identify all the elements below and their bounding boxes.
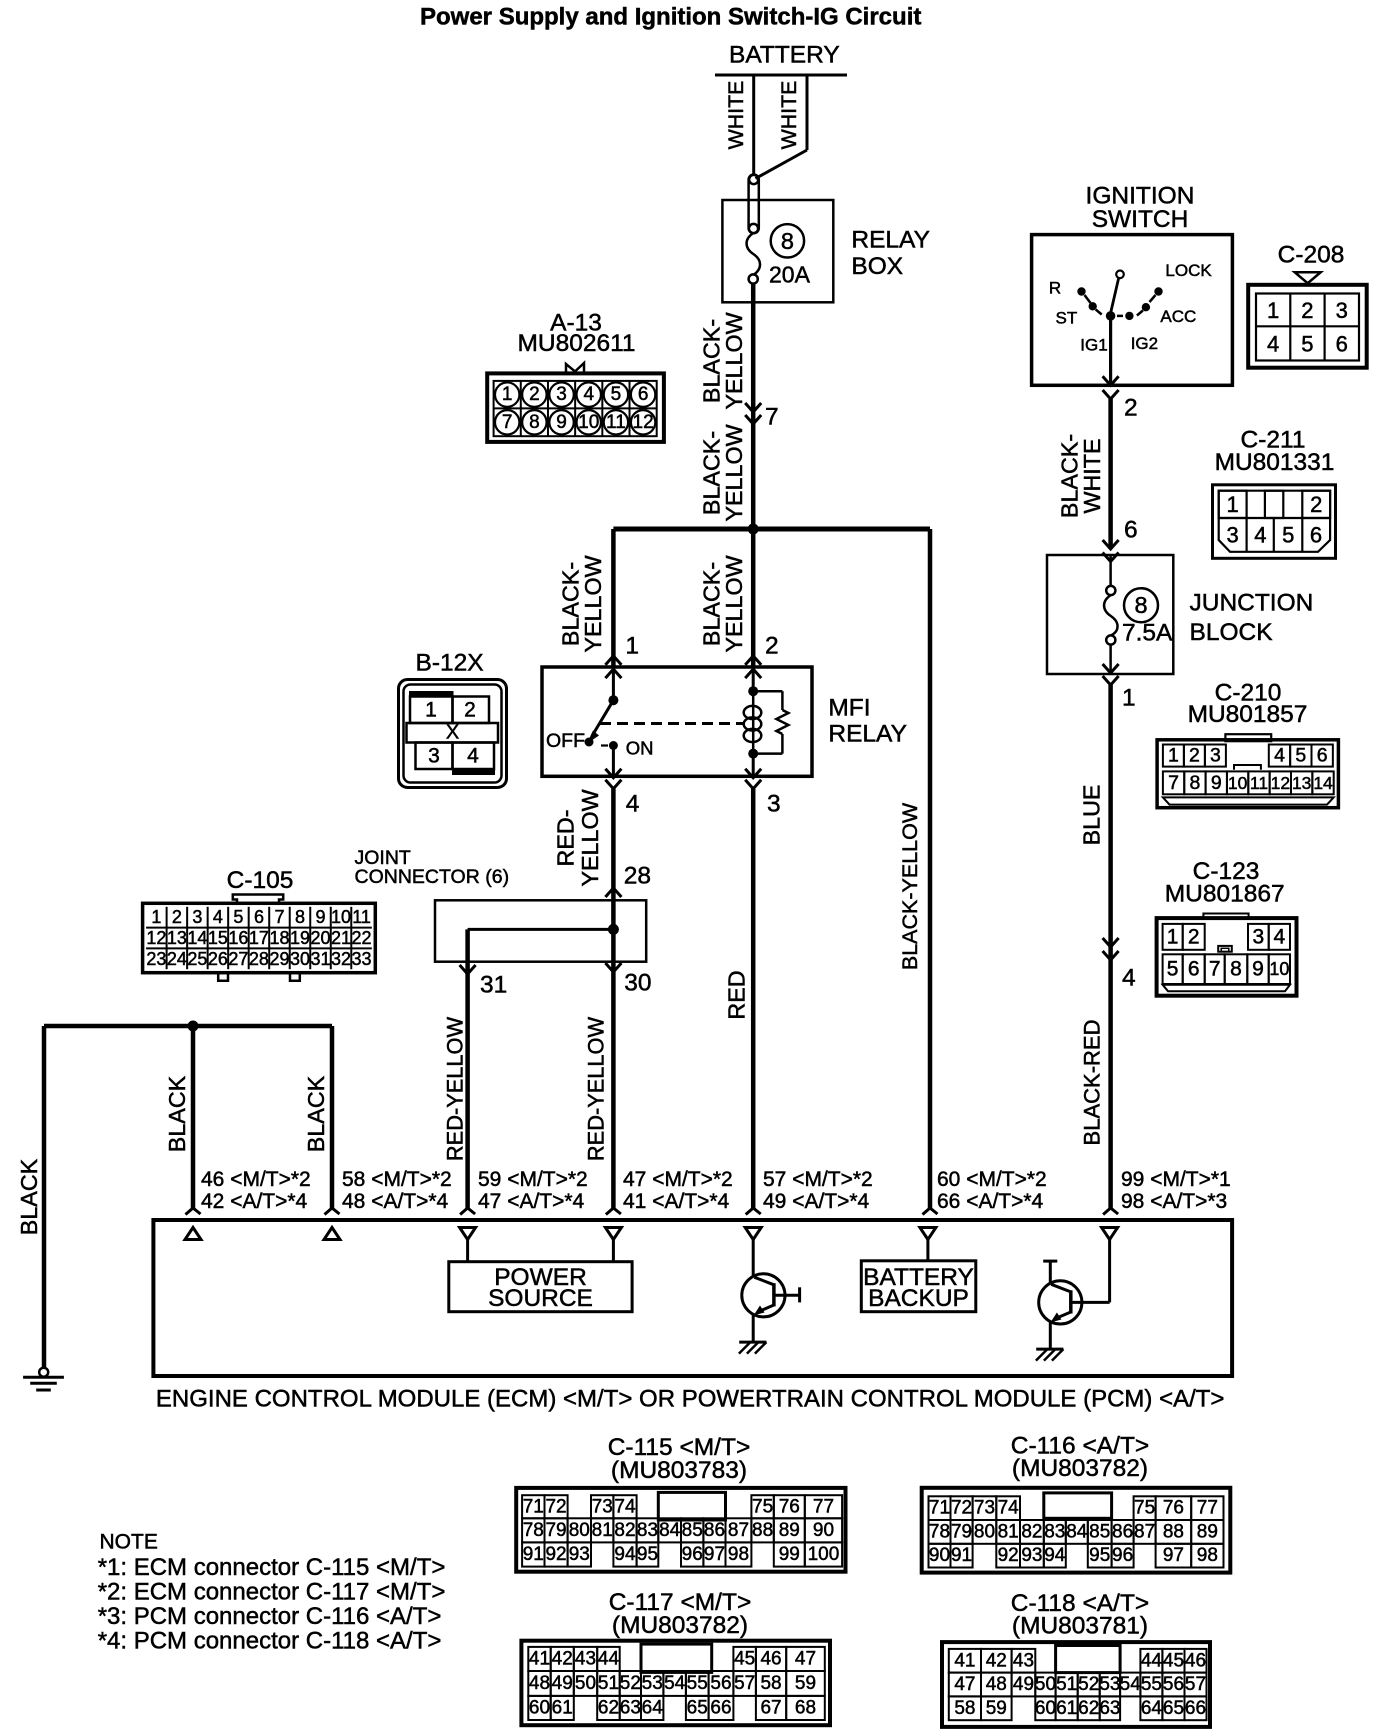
chassis ground Q2	[1036, 1348, 1063, 1351]
C-105 bottom tabs	[218, 973, 228, 981]
svg-text:1: 1	[1122, 685, 1136, 712]
svg-text:31: 31	[480, 972, 507, 999]
svg-text:59 <M/T>*2: 59 <M/T>*2	[478, 1168, 588, 1191]
MFI dashed link	[600, 722, 744, 725]
svg-text:BLACK: BLACK	[303, 1075, 329, 1152]
svg-text:52: 52	[620, 1673, 641, 1694]
svg-text:4: 4	[583, 384, 594, 405]
joint connector internal link	[468, 928, 614, 931]
svg-text:71: 71	[523, 1496, 544, 1517]
svg-text:67: 67	[760, 1697, 781, 1718]
junction node	[748, 524, 759, 535]
svg-text:74: 74	[998, 1498, 1020, 1519]
svg-text:RED-YELLOW: RED-YELLOW	[584, 1017, 609, 1162]
svg-text:42 <A/T>*4: 42 <A/T>*4	[201, 1190, 308, 1213]
joint connector (6) body	[435, 900, 646, 961]
svg-text:(MU803781): (MU803781)	[1012, 1613, 1148, 1640]
power triangle	[920, 1228, 936, 1240]
wire black-white	[1108, 399, 1113, 549]
junction block fuse	[1109, 555, 1112, 586]
wire end at ECM pin 60/66	[923, 1208, 938, 1215]
svg-text:3: 3	[767, 791, 781, 818]
svg-text:7: 7	[274, 907, 284, 927]
svg-text:44: 44	[1141, 1650, 1163, 1671]
svg-text:81: 81	[592, 1520, 613, 1541]
svg-text:60: 60	[1035, 1698, 1056, 1719]
svg-text:7: 7	[502, 412, 513, 433]
wire end at ECM pin 58/48	[325, 1208, 340, 1215]
svg-text:57 <M/T>*2: 57 <M/T>*2	[763, 1168, 873, 1191]
wire end at ECM pin 47/41	[606, 1208, 621, 1215]
svg-text:64: 64	[1141, 1698, 1163, 1719]
svg-text:24: 24	[167, 949, 187, 969]
connector B-12X body	[399, 680, 507, 788]
svg-text:RED: RED	[724, 970, 750, 1019]
ECM/PCM module box	[153, 1220, 1232, 1376]
svg-text:46: 46	[1185, 1650, 1206, 1671]
svg-text:42: 42	[986, 1650, 1007, 1671]
svg-text:86: 86	[1112, 1521, 1133, 1542]
svg-text:ENGINE CONTROL MODULE (ECM) <M: ENGINE CONTROL MODULE (ECM) <M/T> OR POW…	[156, 1386, 1225, 1413]
svg-text:MU802611: MU802611	[517, 330, 635, 357]
svg-text:14: 14	[187, 928, 207, 948]
svg-text:2: 2	[1189, 745, 1200, 767]
svg-text:78: 78	[929, 1521, 950, 1542]
svg-text:56: 56	[1163, 1674, 1184, 1695]
svg-text:98: 98	[1197, 1545, 1218, 1566]
junction block box	[1047, 555, 1173, 674]
svg-text:5: 5	[1282, 523, 1294, 548]
wire end at ECM pin 59/47	[460, 1208, 475, 1215]
svg-text:2: 2	[1301, 298, 1313, 323]
svg-text:88: 88	[1163, 1521, 1184, 1542]
svg-text:LOCK: LOCK	[1165, 261, 1212, 280]
svg-text:58: 58	[954, 1698, 975, 1719]
wire junction bus	[613, 527, 930, 532]
svg-text:SOURCE: SOURCE	[488, 1285, 593, 1312]
svg-text:71: 71	[929, 1498, 950, 1519]
svg-text:14: 14	[1313, 773, 1333, 793]
svg-text:4: 4	[626, 791, 640, 818]
svg-text:BLOCK: BLOCK	[1190, 619, 1274, 646]
svg-text:76: 76	[1163, 1498, 1184, 1519]
svg-text:28: 28	[624, 863, 651, 890]
svg-text:7: 7	[1209, 958, 1221, 981]
wire black to ground	[42, 1026, 47, 1368]
svg-text:99 <M/T>*1: 99 <M/T>*1	[1121, 1168, 1231, 1191]
chassis ground Q1	[739, 1341, 766, 1344]
svg-text:1: 1	[1267, 298, 1279, 323]
svg-text:3: 3	[192, 907, 202, 927]
svg-text:YELLOW: YELLOW	[577, 789, 603, 886]
wire to power source	[612, 1240, 615, 1262]
A-13 index mark	[566, 363, 584, 374]
pivot	[1106, 311, 1116, 321]
svg-text:87: 87	[728, 1520, 749, 1541]
wire black-yellow main	[751, 284, 756, 530]
wire to pin 31	[465, 929, 470, 974]
connector C-211 body	[1213, 485, 1336, 559]
wire red pin3	[751, 789, 756, 1208]
wire black-yellow to ECM	[928, 529, 933, 1208]
svg-text:SWITCH: SWITCH	[1092, 206, 1189, 233]
svg-text:2: 2	[765, 633, 779, 660]
wire blue black-red	[1108, 685, 1113, 1208]
C-105 top tab	[233, 895, 283, 904]
svg-text:11: 11	[606, 412, 626, 433]
svg-text:47 <A/T>*4: 47 <A/T>*4	[478, 1190, 585, 1213]
svg-text:11: 11	[352, 907, 371, 927]
svg-text:47: 47	[954, 1674, 975, 1695]
svg-text:6: 6	[1336, 331, 1348, 356]
svg-text:27: 27	[228, 949, 248, 969]
svg-text:97: 97	[704, 1544, 725, 1565]
svg-text:12: 12	[633, 412, 654, 433]
svg-text:1: 1	[625, 633, 639, 660]
wire black 1	[191, 1026, 196, 1208]
junction node	[608, 924, 619, 935]
svg-text:BLACK-RED: BLACK-RED	[1080, 1020, 1105, 1146]
svg-text:72: 72	[951, 1498, 972, 1519]
svg-text:6: 6	[1317, 745, 1328, 767]
svg-text:66 <A/T>*4: 66 <A/T>*4	[937, 1190, 1044, 1213]
svg-text:5: 5	[1295, 745, 1306, 767]
svg-text:4: 4	[1273, 926, 1285, 949]
svg-text:4: 4	[1122, 965, 1136, 992]
svg-text:4: 4	[1274, 745, 1285, 767]
svg-text:4: 4	[1254, 523, 1266, 548]
svg-text:80: 80	[974, 1521, 995, 1542]
relay box	[722, 200, 833, 302]
svg-text:48: 48	[986, 1674, 1007, 1695]
svg-text:41 <A/T>*4: 41 <A/T>*4	[623, 1190, 730, 1213]
C-210 small tab	[1234, 765, 1261, 770]
svg-text:MFI: MFI	[828, 695, 870, 722]
svg-text:11: 11	[1250, 773, 1268, 793]
svg-text:1: 1	[502, 384, 513, 405]
wire ground bus	[44, 1024, 332, 1029]
contact LOCK-side	[1154, 287, 1162, 295]
svg-text:41: 41	[954, 1650, 975, 1671]
svg-text:(MU803782): (MU803782)	[1012, 1455, 1148, 1482]
svg-text:WHITE: WHITE	[777, 81, 801, 150]
svg-text:63: 63	[1099, 1698, 1120, 1719]
svg-text:100: 100	[808, 1544, 840, 1565]
svg-text:YELLOW: YELLOW	[721, 424, 747, 521]
svg-text:47: 47	[795, 1648, 816, 1669]
svg-text:91: 91	[523, 1544, 544, 1565]
svg-text:99: 99	[779, 1544, 800, 1565]
svg-text:3: 3	[1252, 926, 1264, 949]
wire IG1 down	[1109, 316, 1112, 385]
svg-text:MU801867: MU801867	[1165, 881, 1285, 908]
wire to MFI pin 2	[751, 529, 756, 667]
power triangle	[605, 1228, 621, 1240]
svg-text:MU801331: MU801331	[1215, 449, 1335, 476]
svg-text:53: 53	[642, 1673, 663, 1694]
wire to power source	[466, 1240, 469, 1262]
svg-text:BOX: BOX	[851, 253, 903, 280]
svg-text:1: 1	[1168, 745, 1179, 767]
svg-text:2: 2	[1310, 492, 1322, 517]
svg-text:ST: ST	[1056, 309, 1078, 328]
svg-text:43: 43	[1013, 1650, 1034, 1671]
B-12X cells	[410, 697, 453, 724]
svg-text:49: 49	[552, 1673, 573, 1694]
svg-text:OFF: OFF	[546, 730, 585, 752]
svg-text:*2: ECM connector C-117 <M/T>: *2: ECM connector C-117 <M/T>	[98, 1579, 446, 1606]
svg-text:5: 5	[1167, 958, 1179, 981]
svg-text:3: 3	[428, 745, 440, 768]
C-210 cells row1	[1163, 745, 1184, 767]
svg-text:91: 91	[951, 1545, 972, 1566]
power triangle	[1102, 1228, 1118, 1240]
svg-text:55: 55	[687, 1673, 708, 1694]
svg-text:15: 15	[208, 928, 228, 948]
svg-text:28: 28	[249, 949, 269, 969]
svg-text:9: 9	[1211, 772, 1222, 794]
svg-text:80: 80	[569, 1520, 590, 1541]
svg-text:IG1: IG1	[1080, 335, 1107, 354]
svg-text:30: 30	[624, 970, 651, 997]
fuse number circle 8	[1124, 588, 1158, 622]
svg-text:6: 6	[1188, 958, 1200, 981]
connector C-123 body	[1203, 914, 1248, 920]
svg-text:19: 19	[290, 928, 310, 948]
svg-text:95: 95	[637, 1544, 658, 1565]
svg-text:94: 94	[614, 1544, 636, 1565]
fuse number circle 8	[771, 224, 804, 257]
power triangle	[745, 1228, 761, 1240]
svg-text:74: 74	[614, 1496, 636, 1517]
svg-text:2: 2	[1188, 926, 1200, 949]
svg-text:57: 57	[734, 1673, 755, 1694]
arrow into MFI pin 2	[745, 656, 761, 665]
junction node	[188, 1021, 199, 1032]
ground triangle pin 46/42	[185, 1228, 201, 1240]
svg-text:93: 93	[569, 1544, 590, 1565]
svg-text:84: 84	[659, 1520, 681, 1541]
svg-text:10: 10	[331, 907, 351, 927]
svg-text:CONNECTOR (6): CONNECTOR (6)	[355, 866, 510, 888]
svg-text:4: 4	[467, 745, 479, 768]
svg-text:82: 82	[614, 1520, 635, 1541]
svg-text:49 <A/T>*4: 49 <A/T>*4	[763, 1190, 870, 1213]
svg-text:54: 54	[1120, 1674, 1142, 1695]
svg-text:13: 13	[1292, 773, 1311, 793]
arrow into MFI pin 1	[605, 656, 621, 665]
C-210 cells row2	[1163, 771, 1184, 794]
svg-text:65: 65	[687, 1697, 708, 1718]
svg-text:90: 90	[929, 1545, 950, 1566]
wire end at ECM pin 99/98	[1103, 1208, 1118, 1215]
svg-text:89: 89	[1197, 1521, 1218, 1542]
svg-text:6: 6	[254, 907, 264, 927]
arrow	[1103, 938, 1119, 947]
arrow pin 30	[605, 963, 621, 972]
svg-text:2: 2	[529, 384, 540, 405]
svg-text:51: 51	[598, 1673, 619, 1694]
svg-text:8: 8	[1230, 958, 1242, 981]
wire to transistor Q2 base	[1108, 1240, 1111, 1303]
svg-text:22: 22	[352, 928, 372, 948]
svg-text:41: 41	[529, 1648, 550, 1669]
svg-text:54: 54	[664, 1673, 686, 1694]
power triangle	[460, 1228, 476, 1240]
svg-text:30: 30	[290, 949, 310, 969]
svg-text:YELLOW: YELLOW	[580, 555, 606, 652]
B-12X keying bar top	[410, 692, 454, 697]
svg-text:7.5A: 7.5A	[1122, 620, 1173, 647]
svg-text:62: 62	[598, 1697, 619, 1718]
svg-text:(MU803782): (MU803782)	[612, 1612, 748, 1639]
svg-text:43: 43	[575, 1648, 596, 1669]
svg-text:RELAY: RELAY	[828, 721, 907, 748]
svg-text:7: 7	[765, 404, 779, 431]
svg-text:(MU803783): (MU803783)	[611, 1457, 747, 1484]
svg-text:18: 18	[269, 928, 289, 948]
svg-text:58 <M/T>*2: 58 <M/T>*2	[342, 1168, 452, 1191]
svg-text:89: 89	[779, 1520, 800, 1541]
svg-text:5: 5	[233, 907, 243, 927]
svg-text:16: 16	[228, 928, 248, 948]
svg-text:ON: ON	[626, 738, 654, 759]
svg-text:*1: ECM connector C-115 <M/T>: *1: ECM connector C-115 <M/T>	[98, 1554, 446, 1581]
svg-text:94: 94	[1044, 1545, 1066, 1566]
svg-text:45: 45	[734, 1648, 755, 1669]
svg-text:10: 10	[578, 412, 599, 433]
svg-text:C-105: C-105	[227, 867, 294, 894]
svg-text:33: 33	[352, 949, 372, 969]
svg-text:53: 53	[1099, 1674, 1120, 1695]
arrow	[745, 403, 761, 412]
svg-text:2: 2	[1124, 395, 1138, 422]
transistor Q2	[1039, 1281, 1082, 1324]
B-12X keying bar bottom	[453, 770, 495, 775]
svg-text:5: 5	[1301, 331, 1313, 356]
svg-text:48 <A/T>*4: 48 <A/T>*4	[342, 1190, 449, 1213]
svg-text:5: 5	[611, 384, 622, 405]
MFI switch	[612, 667, 615, 697]
C-105 cells	[166, 907, 168, 969]
svg-text:61: 61	[1056, 1698, 1077, 1719]
svg-text:*3: PCM connector C-116 <A/T>: *3: PCM connector C-116 <A/T>	[98, 1603, 442, 1630]
svg-text:57: 57	[1185, 1674, 1206, 1695]
svg-text:58: 58	[760, 1673, 781, 1694]
svg-text:8: 8	[781, 228, 794, 254]
svg-text:1: 1	[151, 907, 161, 927]
svg-text:3: 3	[1210, 745, 1221, 767]
svg-text:96: 96	[1112, 1545, 1133, 1566]
wire to MFI pin 1	[611, 529, 616, 667]
svg-text:8: 8	[1134, 592, 1147, 618]
svg-text:92: 92	[545, 1544, 566, 1565]
C-123 bottom strip	[1163, 985, 1290, 992]
contact IG2	[1117, 315, 1123, 318]
svg-text:10: 10	[1269, 959, 1289, 979]
svg-text:81: 81	[998, 1521, 1019, 1542]
C-210 bottom strip	[1163, 797, 1334, 804]
svg-text:73: 73	[974, 1498, 995, 1519]
svg-text:21: 21	[331, 928, 351, 948]
svg-text:46 <M/T>*2: 46 <M/T>*2	[201, 1168, 311, 1191]
svg-text:BLACK-YELLOW: BLACK-YELLOW	[898, 802, 922, 970]
svg-text:WHITE: WHITE	[724, 81, 748, 150]
svg-text:4: 4	[213, 907, 223, 927]
svg-text:32: 32	[331, 949, 351, 969]
power source box	[449, 1262, 632, 1312]
svg-text:MU801857: MU801857	[1188, 701, 1308, 728]
svg-text:63: 63	[620, 1697, 641, 1718]
svg-text:26: 26	[208, 949, 228, 969]
svg-text:C-208: C-208	[1278, 242, 1345, 269]
svg-text:61: 61	[552, 1697, 573, 1718]
contact ST-side	[1089, 302, 1097, 310]
svg-text:85: 85	[682, 1520, 703, 1541]
svg-text:9: 9	[315, 907, 325, 927]
transistor Q2 collector tick	[1043, 1260, 1057, 1263]
svg-text:6: 6	[1124, 517, 1138, 544]
svg-text:66: 66	[710, 1697, 731, 1718]
svg-text:6: 6	[1310, 523, 1322, 548]
svg-text:BATTERY: BATTERY	[729, 42, 840, 69]
svg-text:56: 56	[710, 1673, 731, 1694]
svg-text:7: 7	[1168, 772, 1179, 794]
svg-text:YELLOW: YELLOW	[721, 555, 747, 652]
svg-text:8: 8	[295, 907, 305, 927]
C-211 cells	[1219, 491, 1330, 552]
svg-text:46: 46	[760, 1648, 781, 1669]
svg-text:88: 88	[752, 1520, 773, 1541]
svg-text:JUNCTION: JUNCTION	[1190, 590, 1314, 617]
svg-text:10: 10	[1228, 773, 1248, 793]
svg-text:RELAY: RELAY	[851, 227, 930, 254]
svg-text:60 <M/T>*2: 60 <M/T>*2	[937, 1168, 1047, 1191]
svg-text:YELLOW: YELLOW	[721, 312, 747, 409]
svg-text:64: 64	[642, 1697, 664, 1718]
svg-text:31: 31	[310, 949, 330, 969]
C-123 cells row2	[1163, 954, 1183, 984]
svg-text:2: 2	[172, 907, 182, 927]
svg-text:1: 1	[1167, 926, 1179, 949]
contact R	[1077, 287, 1085, 295]
wire red-yellow pin4	[611, 789, 616, 888]
svg-text:90: 90	[813, 1520, 834, 1541]
svg-text:23: 23	[146, 949, 166, 969]
svg-text:20A: 20A	[769, 262, 811, 288]
svg-text:20: 20	[310, 928, 330, 948]
svg-text:83: 83	[1044, 1521, 1065, 1542]
svg-text:72: 72	[545, 1496, 566, 1517]
svg-text:65: 65	[1163, 1698, 1184, 1719]
svg-text:BLUE: BLUE	[1079, 785, 1105, 846]
switch lever	[1116, 271, 1124, 279]
svg-text:83: 83	[637, 1520, 658, 1541]
svg-text:*4: PCM connector C-118 <A/T>: *4: PCM connector C-118 <A/T>	[98, 1628, 442, 1655]
arrow	[1103, 664, 1119, 673]
svg-text:60: 60	[529, 1697, 550, 1718]
wire end at ECM pin 46/42	[186, 1208, 201, 1215]
C-208 cells	[1289, 294, 1291, 361]
svg-text:29: 29	[269, 949, 289, 969]
arrow	[605, 769, 621, 778]
svg-text:77: 77	[1197, 1498, 1218, 1519]
svg-text:73: 73	[592, 1496, 613, 1517]
arrow	[745, 769, 761, 778]
svg-text:82: 82	[1021, 1521, 1042, 1542]
svg-text:48: 48	[529, 1673, 550, 1694]
svg-text:13: 13	[167, 928, 187, 948]
